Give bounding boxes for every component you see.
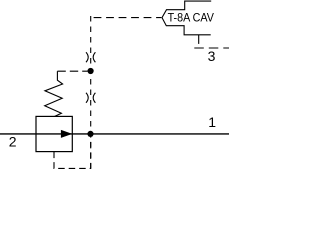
wire port 3 dashed line — [194, 47, 229, 49]
wire pilot dashed spring to node — [57, 70, 87, 72]
orifice upper — [86, 52, 95, 62]
cavity T-8A outline upper step — [162, 1, 211, 18]
svg-text:3: 3 — [208, 48, 216, 64]
node junction dot upper — [88, 68, 94, 74]
valve flow arrow — [61, 130, 71, 137]
wire pilot dashed loop under valve — [54, 137, 91, 168]
wire pilot dashed top horizontal to cavity — [94, 17, 162, 19]
svg-text:1: 1 — [208, 114, 216, 130]
svg-text:T-8A CAV: T-8A CAV — [168, 10, 215, 24]
spring — [45, 71, 63, 116]
svg-text:2: 2 — [9, 133, 17, 149]
wire main flow line port2 to port1 — [0, 133, 229, 135]
port 3 stub — [198, 35, 200, 44]
valve V1 body box — [36, 116, 72, 151]
node junction dot lower — [87, 131, 93, 137]
cavity T-8A outline lower step — [162, 18, 211, 35]
wire pilot dashed vertical line — [90, 16, 92, 168]
orifice lower — [86, 93, 95, 103]
